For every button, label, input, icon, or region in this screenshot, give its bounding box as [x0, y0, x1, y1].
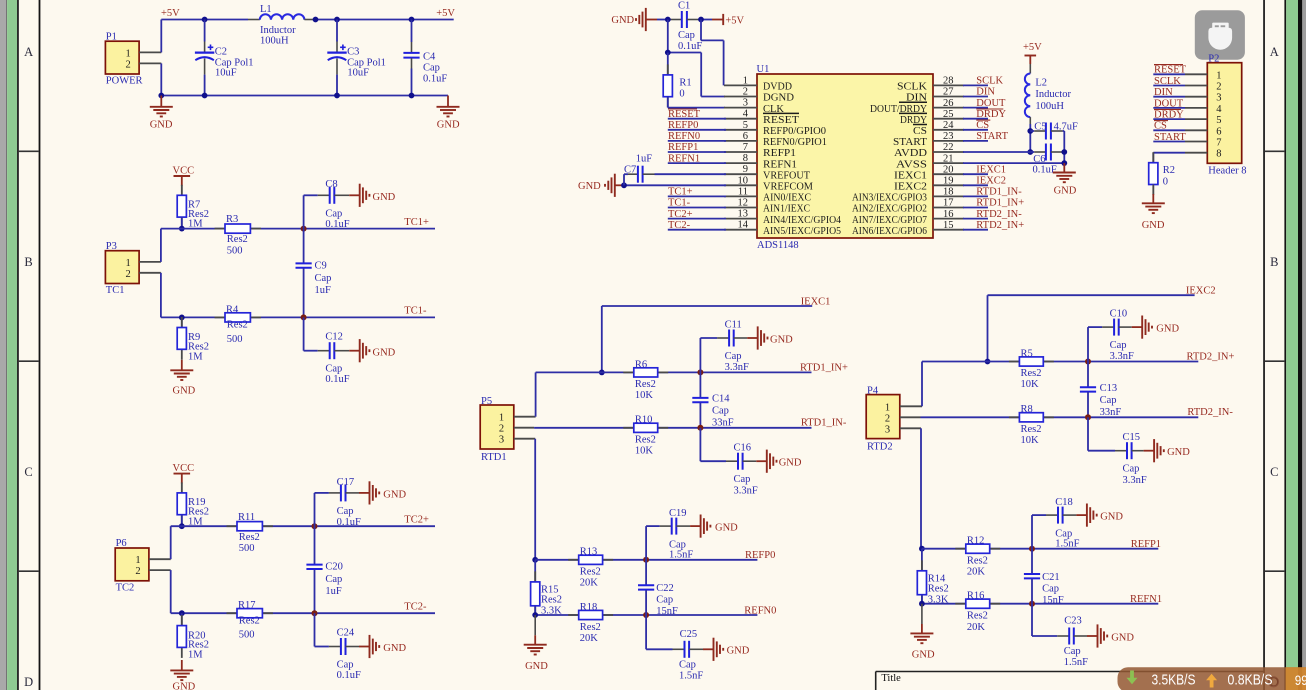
- svg-text:+5V: +5V: [725, 15, 744, 26]
- connector P1: [105, 31, 142, 86]
- svg-text:DOUT: DOUT: [976, 98, 1006, 109]
- svg-text:14: 14: [738, 220, 749, 231]
- svg-text:REFP1: REFP1: [1131, 539, 1161, 550]
- border line right outer: [1284, 0, 1286, 690]
- svg-text:0.1uF: 0.1uF: [337, 517, 361, 528]
- junction IEXC: [599, 370, 605, 376]
- net label REFN1: [668, 153, 700, 164]
- svg-text:3: 3: [743, 98, 748, 109]
- wire VREFCOM: [624, 184, 726, 186]
- svg-text:10K: 10K: [635, 445, 654, 456]
- junction C6 left: [1027, 149, 1033, 155]
- svg-text:VREFCOM: VREFCOM: [763, 182, 814, 193]
- resistor R18: [568, 602, 613, 644]
- svg-text:RESET: RESET: [668, 109, 701, 120]
- resistor R2: [1149, 152, 1175, 195]
- ground GND at C15: [1144, 439, 1191, 462]
- ground GND at C25: [703, 638, 750, 661]
- svg-text:B: B: [1270, 255, 1278, 269]
- svg-text:1uF: 1uF: [315, 285, 332, 296]
- net label CS: [976, 120, 990, 131]
- svg-text:GND: GND: [1111, 632, 1134, 643]
- wire C1 to +5V: [687, 19, 712, 21]
- wire P3.2 down: [160, 273, 162, 318]
- wire IEXC corner: [602, 306, 812, 372]
- svg-text:RTD1: RTD1: [481, 452, 507, 463]
- svg-text:13: 13: [738, 209, 749, 220]
- capacitor C25: [646, 615, 703, 682]
- svg-text:C: C: [1270, 465, 1278, 479]
- svg-text:Cap: Cap: [325, 574, 342, 585]
- resistor R10: [623, 415, 668, 457]
- U1 left pin names: [763, 82, 842, 237]
- svg-text:RTD1_IN-: RTD1_IN-: [801, 418, 847, 429]
- junction top rail C2: [202, 17, 208, 23]
- pin P5.3: [514, 438, 535, 440]
- svg-text:CS: CS: [1154, 121, 1167, 132]
- upload speed text: [1228, 673, 1273, 689]
- svg-text:GND: GND: [1054, 186, 1077, 197]
- U1 left pin numbers: [738, 75, 749, 230]
- svg-text:Cap: Cap: [315, 273, 332, 284]
- net label START at P2: [1154, 132, 1186, 143]
- net label DRDY at P2: [1154, 109, 1184, 120]
- svg-text:2: 2: [743, 87, 748, 98]
- wire net REFN0: [668, 140, 726, 142]
- wire net RESET: [668, 118, 726, 120]
- svg-text:RTD2_IN-: RTD2_IN-: [976, 209, 1022, 220]
- svg-text:AIN1/IEXC: AIN1/IEXC: [763, 204, 810, 215]
- svg-text:Cap: Cap: [1100, 395, 1117, 406]
- svg-text:GND: GND: [437, 120, 460, 131]
- capacitor C24: [315, 613, 361, 681]
- wire net DOUT: [963, 107, 988, 109]
- junction cap column C15: [1085, 414, 1091, 420]
- svg-text:L2: L2: [1035, 77, 1047, 88]
- wire AVDD to C5/C6: [963, 151, 1030, 153]
- svg-text:Res2: Res2: [239, 615, 260, 626]
- ground GND below R16: [910, 604, 935, 661]
- wire R19 to rail: [181, 515, 183, 527]
- svg-text:RESET: RESET: [1154, 65, 1187, 76]
- svg-text:RESET: RESET: [763, 115, 800, 126]
- svg-text:P1: P1: [106, 31, 117, 42]
- svg-text:START: START: [893, 137, 928, 148]
- svg-text:C8: C8: [325, 179, 337, 190]
- connector P5: [480, 396, 514, 463]
- svg-text:2: 2: [126, 269, 131, 280]
- junction cap column bottom: [301, 314, 307, 320]
- svg-text:AIN7/IEXC/GPIO7: AIN7/IEXC/GPIO7: [852, 215, 927, 226]
- svg-text:B: B: [24, 255, 32, 269]
- svg-text:Cap: Cap: [1042, 584, 1059, 595]
- wire +5V top rail left segment: [161, 19, 259, 21]
- svg-text:TC2-: TC2-: [668, 220, 691, 231]
- IC U1 ADS1148: [757, 64, 934, 251]
- svg-text:4.7uF: 4.7uF: [1054, 122, 1078, 133]
- svg-text:C10: C10: [1110, 308, 1128, 319]
- junction C5 left: [1027, 128, 1033, 134]
- net label RTD1_IN-: [801, 418, 847, 429]
- svg-text:Res2: Res2: [580, 622, 601, 633]
- wire P6.2 down: [170, 570, 172, 613]
- svg-text:Cap: Cap: [325, 364, 342, 375]
- wire P5.3 down: [534, 439, 536, 560]
- net label TC2-: [404, 602, 427, 613]
- svg-text:10uF: 10uF: [215, 68, 237, 79]
- ground GND left of power section: [150, 96, 173, 131]
- svg-text:P6: P6: [116, 538, 127, 549]
- svg-text:Res2: Res2: [967, 611, 988, 622]
- junction cap column C11: [697, 369, 703, 375]
- capacitor C6: [1030, 144, 1064, 176]
- svg-text:10K: 10K: [635, 390, 654, 401]
- wire TC1+ rail: [161, 228, 435, 230]
- svg-text:RTD2_IN+: RTD2_IN+: [976, 220, 1024, 231]
- svg-text:REFN0/GPIO1: REFN0/GPIO1: [763, 137, 827, 148]
- svg-text:Res2: Res2: [635, 379, 656, 390]
- border line left outer: [17, 0, 19, 690]
- network speed overlay bar: [1118, 667, 1306, 692]
- wire P4.3 down: [920, 428, 922, 548]
- net label TC1+: [668, 187, 693, 198]
- svg-text:GND: GND: [770, 334, 793, 345]
- svg-text:C25: C25: [680, 629, 698, 640]
- wire +5V top rail right segment: [304, 19, 453, 21]
- wire REFN0 rail: [535, 614, 757, 616]
- svg-text:ADS1148: ADS1148: [757, 240, 799, 251]
- net label RTD2_IN+: [976, 220, 1024, 231]
- svg-text:4: 4: [743, 109, 749, 120]
- download speed text: [1152, 673, 1196, 689]
- svg-text:Cap: Cap: [712, 406, 729, 417]
- capacitor C2: [195, 20, 254, 96]
- resistor R19: [177, 482, 209, 527]
- svg-text:GND: GND: [383, 490, 406, 501]
- net label DRDY: [976, 109, 1006, 120]
- svg-text:R8: R8: [1021, 404, 1033, 415]
- wire net CS: [963, 129, 988, 131]
- svg-text:C1: C1: [678, 1, 690, 12]
- svg-text:3.3nF: 3.3nF: [1123, 475, 1147, 486]
- junction REFP1 left: [919, 546, 925, 552]
- net label TC2+: [404, 515, 429, 526]
- junction bottom rail C2: [202, 93, 208, 99]
- junction C7 gnd: [621, 182, 627, 188]
- svg-text:100uH: 100uH: [260, 35, 289, 46]
- svg-text:R1: R1: [679, 77, 691, 88]
- svg-text:Cap: Cap: [1064, 646, 1081, 657]
- svg-text:28: 28: [943, 76, 954, 87]
- svg-text:IEXC1: IEXC1: [976, 164, 1006, 175]
- svg-text:1M: 1M: [188, 352, 203, 363]
- svg-text:Res2: Res2: [580, 567, 601, 578]
- resistor R16: [955, 591, 1000, 633]
- svg-text:C13: C13: [1100, 383, 1118, 394]
- net label REFP0: [668, 120, 698, 131]
- svg-text:R11: R11: [238, 512, 255, 523]
- net label SCLK: [976, 76, 1003, 87]
- net label TC2+: [668, 209, 693, 220]
- resistor R17: [227, 600, 273, 641]
- wire net TC2-: [668, 229, 726, 231]
- capacitor C10: [1088, 308, 1134, 362]
- svg-text:AIN4/IEXC/GPIO4: AIN4/IEXC/GPIO4: [763, 215, 842, 226]
- svg-text:0.1uF: 0.1uF: [325, 219, 349, 230]
- svg-text:GND: GND: [383, 643, 406, 654]
- svg-text:TC2-: TC2-: [404, 602, 427, 613]
- wire VREFOUT: [643, 173, 726, 175]
- svg-text:U1: U1: [757, 64, 770, 75]
- svg-text:8: 8: [1216, 149, 1221, 160]
- svg-text:7: 7: [743, 142, 748, 153]
- svg-text:20K: 20K: [580, 578, 599, 589]
- svg-text:11: 11: [738, 186, 748, 197]
- capacitor C12: [304, 317, 350, 385]
- svg-text:Cap: Cap: [734, 474, 751, 485]
- svg-text:0.8KB/S: 0.8KB/S: [1228, 673, 1273, 689]
- resistor R3: [215, 214, 261, 256]
- junction bottom rail C3: [334, 93, 340, 99]
- connector P3: [105, 241, 139, 296]
- svg-text:Header 8: Header 8: [1208, 166, 1246, 177]
- svg-text:C17: C17: [337, 477, 355, 488]
- svg-text:AVDD: AVDD: [894, 148, 927, 159]
- ground GND at C16: [756, 450, 802, 473]
- net label TC1-: [668, 198, 691, 209]
- svg-text:3: 3: [885, 424, 890, 435]
- svg-text:Res2: Res2: [239, 532, 260, 543]
- ground GND at C8: [349, 184, 395, 207]
- svg-text:C21: C21: [1042, 572, 1060, 583]
- svg-text:Inductor: Inductor: [1035, 89, 1071, 100]
- resistor R8: [1009, 404, 1054, 446]
- svg-text:IEXC1: IEXC1: [801, 296, 831, 307]
- junction REFN1 left: [919, 601, 925, 607]
- svg-text:GND: GND: [1100, 512, 1123, 523]
- junction C1 left: [665, 17, 671, 23]
- svg-text:3.3nF: 3.3nF: [725, 362, 749, 373]
- svg-text:Res2: Res2: [541, 595, 562, 606]
- junction cap column top: [312, 523, 318, 529]
- ground GND at C19: [690, 515, 738, 538]
- junction bottom rail P1: [158, 93, 164, 99]
- svg-text:5: 5: [1216, 115, 1221, 126]
- svg-text:Cap: Cap: [678, 30, 695, 41]
- wire net RTD2_IN- stub: [963, 218, 988, 220]
- capacitor C14: [692, 372, 733, 428]
- svg-text:DGND: DGND: [763, 93, 794, 104]
- svg-text:Res2: Res2: [227, 320, 248, 331]
- wire net DRDY at P2: [1153, 118, 1185, 120]
- border line left inner: [39, 0, 41, 690]
- resistor R15: [531, 560, 563, 617]
- resistor R4: [215, 304, 261, 345]
- svg-text:+5V: +5V: [161, 8, 180, 19]
- svg-text:0.1uF: 0.1uF: [678, 41, 702, 52]
- svg-text:10uF: 10uF: [347, 68, 369, 79]
- svg-text:500: 500: [227, 246, 243, 257]
- net label SCLK at P2: [1154, 76, 1181, 87]
- svg-text:DOUT: DOUT: [1154, 98, 1184, 109]
- svg-text:6: 6: [1216, 126, 1221, 137]
- svg-text:GND: GND: [715, 523, 738, 534]
- svg-text:START: START: [1154, 132, 1186, 143]
- svg-text:Cap: Cap: [325, 209, 342, 220]
- svg-text:AIN2/IEXC/GPIO2: AIN2/IEXC/GPIO2: [852, 204, 927, 215]
- junction cap column C16: [697, 425, 703, 431]
- wire C5 right vertical: [1063, 131, 1065, 163]
- ground GND at C12: [349, 339, 395, 362]
- svg-text:1uF: 1uF: [636, 154, 653, 165]
- svg-text:+5V: +5V: [436, 8, 455, 19]
- svg-text:0.1uF: 0.1uF: [423, 74, 447, 85]
- zone dividers right: [1265, 151, 1285, 571]
- svg-text:3: 3: [1216, 93, 1221, 104]
- junction IEXC: [985, 359, 991, 365]
- svg-text:500: 500: [239, 630, 255, 641]
- resistor R11: [227, 512, 273, 554]
- U1 right pin stubs 28-15: [933, 85, 964, 229]
- wire net RTD2_IN+ stub: [963, 229, 988, 231]
- pin P3.2: [139, 272, 161, 274]
- svg-text:0.1uF: 0.1uF: [325, 374, 349, 385]
- svg-text:Res2: Res2: [1021, 368, 1042, 379]
- svg-text:R3: R3: [226, 214, 238, 225]
- wire net DIN at P2: [1153, 96, 1185, 98]
- ground GND at C23: [1087, 624, 1134, 647]
- wire REFP1 rail: [922, 548, 1158, 550]
- window edge dark strip right: [1298, 0, 1306, 690]
- svg-text:20K: 20K: [967, 567, 986, 578]
- junction R19: [179, 523, 185, 529]
- resistor R9: [177, 317, 209, 363]
- svg-text:1: 1: [126, 258, 131, 269]
- svg-text:C20: C20: [325, 562, 343, 573]
- svg-text:0: 0: [1163, 177, 1168, 188]
- download arrow: [1127, 671, 1138, 685]
- svg-text:D: D: [24, 675, 33, 689]
- svg-text:GND: GND: [150, 120, 173, 131]
- wire IEXC corner: [988, 295, 1195, 361]
- wire P5.1 up to RTD1_IN+: [535, 372, 537, 416]
- capacitor C11: [700, 319, 749, 373]
- zone letters right A B C D: [1270, 45, 1279, 689]
- connector P6: [115, 538, 149, 593]
- capacitor C17: [315, 477, 361, 528]
- svg-text:Cap: Cap: [423, 62, 440, 73]
- svg-text:REFP1: REFP1: [668, 142, 698, 153]
- junction REFP0 left: [532, 557, 538, 563]
- zone letters left A B C D: [24, 45, 33, 689]
- svg-text:2: 2: [135, 566, 140, 577]
- net label IEXC1: [976, 164, 1006, 175]
- svg-text:P5: P5: [481, 396, 492, 407]
- svg-text:SCLK: SCLK: [897, 82, 927, 93]
- junction cap column top: [301, 226, 307, 232]
- svg-text:2: 2: [126, 59, 131, 70]
- wire net SCLK: [963, 84, 988, 86]
- svg-text:1uF: 1uF: [325, 586, 342, 597]
- wire net TC1+: [668, 195, 726, 197]
- capacitor C18: [1032, 497, 1080, 549]
- svg-text:REFN0: REFN0: [668, 131, 700, 142]
- svg-text:C11: C11: [725, 319, 742, 330]
- wire TC2- rail: [171, 612, 435, 614]
- svg-text:R17: R17: [238, 600, 256, 611]
- svg-text:5: 5: [743, 120, 748, 131]
- junction bottom rail C4: [409, 93, 415, 99]
- svg-text:3: 3: [499, 435, 504, 446]
- svg-text:6: 6: [743, 131, 748, 142]
- capacitor C15: [1088, 417, 1147, 486]
- svg-text:22: 22: [943, 142, 954, 153]
- svg-text:Cap: Cap: [656, 595, 673, 606]
- net label DIN at P2: [1154, 87, 1173, 98]
- wire L2 to C5/C6: [1029, 117, 1031, 152]
- junction top rail C3: [334, 17, 340, 23]
- svg-text:15nF: 15nF: [1042, 595, 1064, 606]
- svg-text:DVDD: DVDD: [763, 82, 792, 93]
- svg-text:C3: C3: [347, 47, 359, 58]
- connector P4: [866, 385, 900, 452]
- svg-text:A: A: [1270, 45, 1279, 59]
- svg-text:AIN0/IEXC: AIN0/IEXC: [763, 193, 811, 204]
- svg-text:A: A: [24, 45, 33, 59]
- capacitor C21: [1024, 549, 1064, 606]
- svg-text:DIN: DIN: [976, 87, 995, 98]
- wire net REFN1: [668, 162, 726, 164]
- wire net START at P2: [1153, 141, 1185, 143]
- svg-text:START: START: [976, 131, 1008, 142]
- capacitor C7: [624, 154, 652, 183]
- capacitor C3: [327, 20, 386, 96]
- junction REFP1 cap column: [1029, 546, 1035, 552]
- svg-text:RTD2_IN+: RTD2_IN+: [1187, 352, 1235, 363]
- svg-text:21: 21: [943, 153, 954, 164]
- wire C7 left: [624, 174, 638, 185]
- svg-text:GND: GND: [373, 347, 396, 358]
- svg-text:1: 1: [1216, 70, 1221, 81]
- wire RTD2_IN+ rail: [922, 361, 1198, 363]
- window edge grey strip left: [0, 0, 7, 690]
- svg-text:10K: 10K: [1021, 379, 1040, 390]
- net label REFP1: [1131, 539, 1161, 550]
- resistor R12: [955, 535, 1000, 577]
- ground GND at R9: [170, 360, 195, 397]
- svg-text:AVSS: AVSS: [896, 159, 927, 170]
- P2 pin stubs: [1185, 74, 1207, 152]
- U1 right pin numbers: [943, 76, 954, 231]
- svg-text:REFP1: REFP1: [763, 148, 796, 159]
- net label REFP1: [668, 142, 698, 153]
- net label START: [976, 131, 1008, 142]
- svg-text:Cap: Cap: [1123, 464, 1140, 475]
- svg-text:Cap: Cap: [337, 506, 354, 517]
- svg-text:GND: GND: [1156, 324, 1179, 335]
- svg-text:C5: C5: [1034, 122, 1046, 133]
- svg-text:1.5nF: 1.5nF: [1055, 539, 1079, 550]
- wire DGND branch: [668, 20, 725, 97]
- junction R7: [179, 226, 185, 232]
- net label IEXC1: [801, 296, 831, 307]
- net label RTD2_IN-: [976, 209, 1022, 220]
- svg-text:C7: C7: [624, 165, 636, 176]
- svg-text:Cap: Cap: [1110, 340, 1127, 351]
- net label RTD2_IN+: [1187, 352, 1235, 363]
- junction C1 right: [698, 17, 704, 23]
- wire RTD2_IN- rail: [921, 416, 1199, 418]
